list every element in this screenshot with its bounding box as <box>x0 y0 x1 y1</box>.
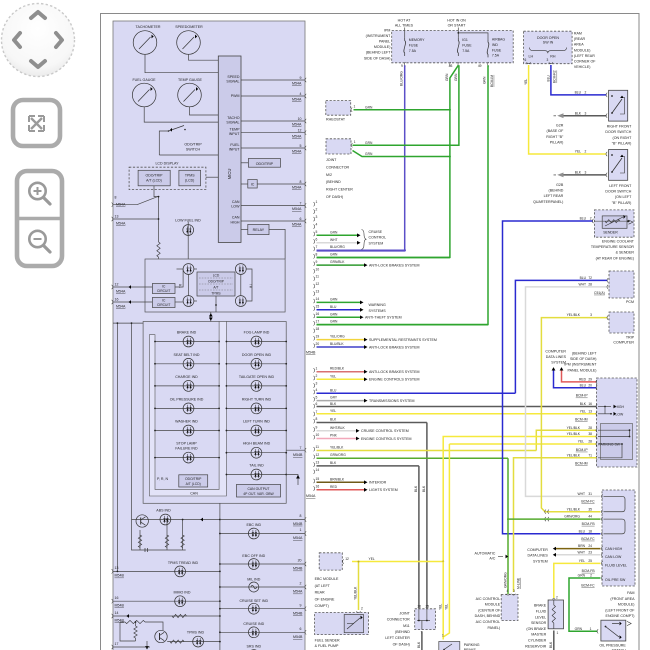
svg-text:38: 38 <box>588 432 592 436</box>
svg-text:BLK: BLK <box>414 485 418 492</box>
wire LCD display down to rail <box>154 190 159 197</box>
wire BLK right door switch to ground G2R <box>554 111 608 118</box>
FAM pin arcs <box>601 494 602 580</box>
wire ABS row to pin 8 M54B <box>220 514 306 526</box>
wire GRY pin5 M54A transmissions <box>317 400 365 402</box>
svg-text:SW IN: SW IN <box>543 41 554 45</box>
wire GRN pin8 M54B from IG1 <box>317 257 450 259</box>
TPMS IND <box>167 631 221 647</box>
svg-text:WHT: WHT <box>330 238 338 242</box>
ODO/TRIP switch <box>159 126 218 156</box>
svg-text:2: 2 <box>590 217 592 221</box>
svg-text:GRN: GRN <box>575 627 583 631</box>
svg-text:BRN/BLK: BRN/BLK <box>330 477 345 481</box>
svg-text:IMMO IND: IMMO IND <box>174 591 191 595</box>
svg-text:2: 2 <box>590 574 592 578</box>
svg-text:TPMS TREAD IND: TPMS TREAD IND <box>168 561 199 565</box>
svg-text:ODO/TRIP: ODO/TRIP <box>184 143 202 147</box>
svg-text:M/2: M/2 <box>326 173 332 177</box>
svg-text:STOP LAMP: STOP LAMP <box>176 442 197 446</box>
svg-text:CONTROL: CONTROL <box>369 236 387 240</box>
svg-text:SENDER: SENDER <box>603 231 618 235</box>
svg-text:BRAKE IND: BRAKE IND <box>177 331 197 335</box>
svg-text:IND: IND <box>492 43 499 47</box>
wire RED/BLK pin1 M54A anti-lock <box>317 371 365 373</box>
svg-text:SRS IND: SRS IND <box>247 645 262 649</box>
svg-text:18: 18 <box>588 529 592 533</box>
svg-text:25: 25 <box>588 559 592 563</box>
ENGINE COOLANT TEMPERATURE SENSOR & SENDER <box>591 210 635 260</box>
svg-text:CAN OUTPUT: CAN OUTPUT <box>247 487 269 491</box>
svg-text:YEL/BLK: YEL/BLK <box>567 313 581 317</box>
svg-text:FAM: FAM <box>627 591 634 595</box>
svg-text:PARKING: PARKING <box>464 643 480 647</box>
svg-text:8: 8 <box>316 417 318 421</box>
svg-text:BRAKE: BRAKE <box>534 604 547 608</box>
gauge fuel <box>132 78 156 107</box>
svg-text:BLU: BLU <box>580 217 587 221</box>
svg-text:TPMS IND: TPMS IND <box>187 631 205 635</box>
svg-text:LEVEL: LEVEL <box>535 615 546 619</box>
wire GRN joint connector B <box>353 151 451 158</box>
svg-text:RED: RED <box>579 378 587 382</box>
svg-text:M54A: M54A <box>293 536 303 540</box>
svg-text:15: 15 <box>316 305 320 309</box>
svg-text:ODO/TRIP: ODO/TRIP <box>256 162 274 166</box>
svg-text:23: 23 <box>588 550 592 554</box>
svg-text:CAN LOW: CAN LOW <box>605 555 622 559</box>
svg-text:3: 3 <box>584 111 586 115</box>
wire YEL RAM LH to left front door switch <box>524 65 607 156</box>
wire GRN pin16 M54B anti-theft <box>317 316 361 318</box>
instrument cluster panel <box>113 21 305 650</box>
svg-text:4: 4 <box>300 92 302 96</box>
svg-text:LEFT CENTER: LEFT CENTER <box>385 636 410 640</box>
svg-text:4: 4 <box>507 589 509 593</box>
wire BRN FAM 24 CAN HIGH <box>553 544 623 551</box>
svg-text:RIGHT FRONT: RIGHT FRONT <box>607 125 632 129</box>
center rail <box>219 503 221 650</box>
svg-text:PANEL: PANEL <box>379 40 391 44</box>
wire BLU/ORG memory fuse to pin 7 <box>317 65 405 251</box>
svg-text:12: 12 <box>115 283 119 287</box>
left rail B <box>131 323 133 519</box>
wire GRN airbag fuse to pin 17 <box>317 65 494 324</box>
svg-text:FAILURE IND: FAILURE IND <box>175 447 198 451</box>
indicator RIGHT TURN IND <box>226 397 288 413</box>
left stub pin 17 M54B <box>112 642 150 649</box>
svg-text:INTERIOR: INTERIOR <box>369 481 387 485</box>
svg-text:(BEHIND: (BEHIND <box>395 630 410 634</box>
svg-text:1: 1 <box>442 634 444 638</box>
svg-text:GRN: GRN <box>330 253 338 257</box>
svg-text:M54B: M54B <box>293 522 303 526</box>
svg-text:MICU: MICU <box>227 169 232 180</box>
indicator OIL PRESSURE IND <box>154 397 220 413</box>
IPM parking switch block <box>598 424 633 460</box>
svg-text:QUARTERPANEL): QUARTERPANEL) <box>533 200 563 204</box>
svg-text:BLU: BLU <box>546 74 550 81</box>
svg-text:2: 2 <box>584 150 586 154</box>
IPM fuse box <box>364 28 513 63</box>
svg-text:INPUT: INPUT <box>229 147 241 151</box>
svg-text:M54A: M54A <box>292 123 302 127</box>
svg-text:4: 4 <box>316 223 318 227</box>
wire GRN pin14 M54B warning <box>317 301 361 303</box>
svg-text:TAIL IND: TAIL IND <box>249 464 264 468</box>
svg-text:14: 14 <box>316 297 320 301</box>
svg-text:2: 2 <box>316 374 318 378</box>
svg-text:DOOR SWITCH: DOOR SWITCH <box>605 190 631 194</box>
RELAY box <box>241 224 285 259</box>
svg-text:YEL: YEL <box>445 604 449 610</box>
svg-text:LOW: LOW <box>231 205 240 209</box>
svg-text:BLK: BLK <box>417 641 421 648</box>
indicator BRAKE IND <box>154 331 220 347</box>
gauge speedometer <box>175 25 203 54</box>
svg-text:GRN: GRN <box>482 76 486 84</box>
svg-text:TAILGATE OPEN IND: TAILGATE OPEN IND <box>239 375 275 379</box>
svg-text:YEL/BLK: YEL/BLK <box>330 446 344 450</box>
wire fuel gauge to MICU <box>144 107 218 122</box>
svg-text:HOT IN ON: HOT IN ON <box>447 19 466 23</box>
svg-text:GRN: GRN <box>445 73 449 81</box>
MICU SPEED SIGNAL output wire, pin 9 <box>226 75 306 86</box>
svg-text:M54A: M54A <box>116 304 126 308</box>
svg-text:BLK: BLK <box>580 402 587 406</box>
svg-text:IPM (INSTRUMENT: IPM (INSTRUMENT <box>564 363 597 367</box>
svg-text:20: 20 <box>588 383 592 387</box>
wire GRN/ORG to FAM 44 and AC module <box>503 458 600 594</box>
svg-text:GRY: GRY <box>330 396 338 400</box>
svg-text:SENSOR: SENSOR <box>531 621 547 625</box>
wire PNK pin10 M54A engine controls <box>317 438 357 440</box>
svg-text:DOOR OPEN: DOOR OPEN <box>537 36 559 40</box>
CRUISE IND <box>219 622 306 639</box>
svg-text:CRUISE: CRUISE <box>369 230 383 234</box>
svg-text:M54A: M54A <box>292 186 302 190</box>
wire BLU to IPM 20 <box>554 371 597 388</box>
svg-text:FUSE: FUSE <box>492 48 502 52</box>
svg-text:10: 10 <box>298 117 302 121</box>
svg-text:SYSTEMS: SYSTEMS <box>369 309 387 313</box>
svg-text:IPM: IPM <box>384 28 390 32</box>
svg-text:CIRCUIT: CIRCUIT <box>157 303 170 307</box>
svg-text:BLU: BLU <box>330 388 337 392</box>
svg-text:RESERVOIR: RESERVOIR <box>525 644 547 648</box>
svg-text:PANEL): PANEL) <box>487 626 500 630</box>
svg-text:20: 20 <box>298 559 302 563</box>
wire relay to indicator frame <box>269 229 285 259</box>
svg-text:OIL PRESSURE: OIL PRESSURE <box>599 643 626 647</box>
svg-text:WHT/BLK: WHT/BLK <box>330 426 345 430</box>
svg-text:MODULE): MODULE) <box>618 603 635 607</box>
wire YEL/ORG pin19 M54B supplemental restraints <box>317 339 365 341</box>
svg-text:GRN: GRN <box>578 574 586 578</box>
fullscreen button <box>13 100 60 146</box>
svg-text:YEL/BLK: YEL/BLK <box>567 507 581 511</box>
svg-text:FUSE: FUSE <box>462 44 472 48</box>
RAM module box <box>524 31 597 69</box>
svg-text:CRUISE SET IND: CRUISE SET IND <box>239 599 268 603</box>
svg-text:CONNECTOR: CONNECTOR <box>326 165 349 169</box>
svg-text:GRN: GRN <box>365 141 373 145</box>
svg-text:M54A: M54A <box>292 82 302 86</box>
svg-text:RIGHT "B": RIGHT "B" <box>546 135 564 139</box>
svg-text:BLK: BLK <box>549 641 553 648</box>
svg-text:ABS IND: ABS IND <box>156 508 171 512</box>
svg-text:12: 12 <box>316 282 320 286</box>
wires LED cluster <box>177 268 184 270</box>
svg-text:12: 12 <box>345 557 349 561</box>
svg-text:SEAT BELT IND: SEAT BELT IND <box>174 353 200 357</box>
CRUISE SET IND <box>219 599 306 616</box>
svg-text:13: 13 <box>316 461 320 465</box>
svg-text:A/C CONTROL: A/C CONTROL <box>476 597 501 601</box>
svg-text:HIGH: HIGH <box>616 405 625 409</box>
svg-text:(LCD): (LCD) <box>185 179 194 183</box>
svg-text:(BEHIND LEFT: (BEHIND LEFT <box>572 352 597 356</box>
svg-text:BCM-FC: BCM-FC <box>581 499 595 503</box>
svg-text:20: 20 <box>316 342 320 346</box>
svg-text:TR: TR <box>179 283 183 288</box>
indicator FOG LAMP IND <box>226 331 288 347</box>
svg-text:BLU: BLU <box>575 91 582 95</box>
indicator TAILGATE OPEN IND <box>226 375 288 391</box>
svg-text:AUTOMATIC: AUTOMATIC <box>475 552 496 556</box>
svg-text:M54A: M54A <box>293 590 303 594</box>
svg-text:GRN: GRN <box>454 73 458 81</box>
MIL IND <box>219 578 306 594</box>
svg-text:ALL TIMES: ALL TIMES <box>395 23 414 27</box>
svg-text:M54B: M54B <box>293 453 303 457</box>
svg-text:P, R, N: P, R, N <box>157 477 169 481</box>
indicator grid frame <box>143 322 286 504</box>
svg-text:A/T: A/T <box>213 286 218 290</box>
svg-text:YEL: YEL <box>330 409 336 413</box>
left rail A <box>116 323 118 571</box>
AC CONTROL MODULE box <box>475 577 521 630</box>
svg-text:14: 14 <box>316 468 320 472</box>
svg-text:3: 3 <box>316 215 318 219</box>
svg-text:GRN: GRN <box>330 297 338 301</box>
wire BLU pin4 to PCM 72 <box>515 276 608 393</box>
svg-text:YEL: YEL <box>524 79 528 85</box>
svg-text:3: 3 <box>513 589 515 593</box>
indicator DOOR OPEN IND <box>226 353 288 369</box>
svg-text:LEFT REAR: LEFT REAR <box>544 194 564 198</box>
ABS IND <box>132 508 221 527</box>
svg-text:PANEL MODULE): PANEL MODULE) <box>568 368 597 372</box>
wire BRN/BLK pin15 M54A interior lights <box>317 481 365 483</box>
MICU block U1 <box>218 56 241 242</box>
wire RED pin16 M54A interior lights <box>317 489 365 491</box>
svg-text:13: 13 <box>316 290 320 294</box>
svg-text:17: 17 <box>115 642 119 646</box>
svg-text:2: 2 <box>316 208 318 212</box>
SRS IND <box>220 645 262 650</box>
svg-text:YEL/ORG: YEL/ORG <box>330 335 345 339</box>
svg-text:SWITCH: SWITCH <box>186 148 201 152</box>
svg-text:25: 25 <box>426 604 430 608</box>
FUEL SENDER box <box>315 613 369 648</box>
svg-text:BCM-FC: BCM-FC <box>581 584 595 588</box>
svg-text:REAR: REAR <box>315 591 325 595</box>
svg-text:16: 16 <box>588 402 592 406</box>
RHEOSTAT box <box>326 101 356 122</box>
computer data lines lower <box>527 548 548 564</box>
svg-text:8: 8 <box>300 514 302 518</box>
svg-text:C51(A): C51(A) <box>594 291 605 295</box>
IC box <box>241 180 306 190</box>
svg-text:COMPUTER: COMPUTER <box>613 341 634 345</box>
svg-text:A/C CONTROL: A/C CONTROL <box>476 620 501 624</box>
svg-text:17: 17 <box>316 319 320 323</box>
svg-text:7.5A: 7.5A <box>492 54 500 58</box>
svg-text:A/T (LCD): A/T (LCD) <box>186 482 201 486</box>
svg-text:BLU/BLK: BLU/BLK <box>330 342 344 346</box>
bus bar J-shape <box>149 322 226 497</box>
gauge temp <box>178 78 203 107</box>
svg-text:TRIP: TRIP <box>626 336 635 340</box>
label HOT IN ON OR START <box>447 19 466 28</box>
svg-text:11: 11 <box>316 445 320 449</box>
wire GRN/ORG pin12 M54A to FAM and AC <box>317 457 509 459</box>
wire GRN pin17 M54B from airbag fuse <box>317 324 489 326</box>
svg-text:CYLINDER: CYLINDER <box>528 639 547 643</box>
svg-text:GRN/ORG: GRN/ORG <box>330 453 346 457</box>
resistor R1 <box>157 242 160 257</box>
svg-text:MIL IND: MIL IND <box>247 578 260 582</box>
svg-text:MODULE): MODULE) <box>574 48 591 52</box>
svg-text:2: 2 <box>361 607 363 611</box>
wire hot to IG1 and airbag fuse <box>457 28 488 40</box>
svg-text:G2B: G2B <box>556 183 564 187</box>
svg-text:IC: IC <box>251 183 255 187</box>
svg-text:& SENDER: & SENDER <box>616 251 635 255</box>
MICU CAN HIGH wire pin 6 <box>231 216 307 227</box>
indicator HIGH BEAM IND <box>226 442 288 458</box>
svg-text:OIL PRESSURE IND: OIL PRESSURE IND <box>170 397 204 401</box>
svg-text:YEL: YEL <box>580 409 586 413</box>
svg-text:BCM-FC: BCM-FC <box>581 537 595 541</box>
wire BLU pin4 M54A to PCM <box>317 392 516 394</box>
wire BLK M11 to ground <box>417 631 422 650</box>
IPM BLK 16 row <box>580 402 625 409</box>
wire WHT pin6 M54B to cruise control <box>317 242 358 244</box>
svg-text:BCM-IP: BCM-IP <box>576 394 589 398</box>
svg-text:M54A: M54A <box>292 223 302 227</box>
svg-text:1: 1 <box>316 366 318 370</box>
svg-text:71: 71 <box>588 453 592 457</box>
svg-text:ANTI-LOCK BRAKES SYSTEM: ANTI-LOCK BRAKES SYSTEM <box>369 345 420 349</box>
PRN LCD box <box>157 475 208 487</box>
svg-text:CRUISE IND: CRUISE IND <box>243 622 264 626</box>
svg-text:CAN: CAN <box>232 200 240 204</box>
svg-text:COMPUTER: COMPUTER <box>527 548 548 552</box>
svg-text:TEMP GAUGE: TEMP GAUGE <box>178 78 202 82</box>
svg-text:BLK: BLK <box>575 111 582 115</box>
wire BLU sender to FAM 18 <box>503 217 601 534</box>
svg-text:16: 16 <box>316 312 320 316</box>
svg-text:6: 6 <box>300 627 302 631</box>
svg-text:SIGNAL: SIGNAL <box>226 79 239 83</box>
wire YEL EBC module to parking brake rail <box>352 557 443 561</box>
svg-text:11: 11 <box>316 275 320 279</box>
svg-text:VEHICLE): VEHICLE) <box>574 65 591 69</box>
svg-text:FUEL GAUGE: FUEL GAUGE <box>132 78 156 82</box>
svg-text:MEMORY: MEMORY <box>409 38 425 42</box>
svg-text:JOINT: JOINT <box>399 611 410 615</box>
svg-text:FLUID: FLUID <box>536 610 547 614</box>
svg-text:AIRBAG: AIRBAG <box>492 38 506 42</box>
svg-text:PILLAR): PILLAR) <box>550 140 564 144</box>
wire GRN IG1 to rheostat and pin 8 <box>317 65 459 257</box>
svg-text:BLU: BLU <box>579 529 586 533</box>
svg-text:13: 13 <box>115 566 119 570</box>
svg-text:M54A: M54A <box>292 98 302 102</box>
LEFT FRONT DOOR SWITCH <box>605 150 632 205</box>
CAN OUTPUT box <box>237 484 281 497</box>
svg-text:SYSTEM: SYSTEM <box>369 241 384 245</box>
svg-text:14: 14 <box>115 611 119 615</box>
FAM internal loop 2 <box>604 519 626 534</box>
svg-text:LCD DISPLAY: LCD DISPLAY <box>155 162 179 166</box>
svg-text:RIGHT CENTER: RIGHT CENTER <box>326 188 353 192</box>
fuse box bottom pins <box>401 62 489 68</box>
wire GRN IG1 second pin joint connector <box>353 65 459 145</box>
ODO/TRIP box <box>241 159 281 168</box>
node rail to LED cluster <box>158 197 160 242</box>
svg-text:SPEED: SPEED <box>227 75 240 79</box>
svg-text:BLK: BLK <box>330 461 337 465</box>
svg-text:3: 3 <box>590 313 592 317</box>
svg-text:ODO/TRIP: ODO/TRIP <box>208 280 225 284</box>
wire BLU pin15 M54B warning <box>317 309 361 311</box>
svg-text:YEL/BLK: YEL/BLK <box>567 426 581 430</box>
svg-text:2: 2 <box>556 596 558 600</box>
gauge tachometer <box>133 25 161 54</box>
IMMO IND <box>112 591 221 608</box>
svg-text:"B" PILLAR): "B" PILLAR) <box>612 141 632 145</box>
svg-text:M54A: M54A <box>306 494 316 498</box>
svg-text:EBC MODULE: EBC MODULE <box>315 577 339 581</box>
left stub pin 8 M54A <box>112 196 159 207</box>
svg-text:(INSTRUMENT: (INSTRUMENT <box>366 34 392 38</box>
svg-text:BCM-IP: BCM-IP <box>576 448 589 452</box>
svg-text:MODULE: MODULE <box>485 603 501 607</box>
svg-text:TEMPERATURE SENSOR: TEMPERATURE SENSOR <box>591 245 634 249</box>
svg-text:TRANSMISSIONS SYSTEM: TRANSMISSIONS SYSTEM <box>369 399 415 403</box>
OIL PRESSURE SWITCH box <box>599 620 631 650</box>
svg-text:5: 5 <box>316 230 318 234</box>
IC CIRCUIT box 2 <box>152 298 175 308</box>
wire GRN rheostat <box>354 105 451 110</box>
svg-text:IG1: IG1 <box>462 38 468 42</box>
LED D1 <box>183 264 194 275</box>
fuse IG1 FUSE 7.5A <box>457 38 472 56</box>
svg-text:M54A: M54A <box>116 202 126 206</box>
svg-text:YEL: YEL <box>575 150 581 154</box>
svg-text:M54B: M54B <box>306 351 316 355</box>
computer data lines upper <box>545 349 566 370</box>
svg-text:1: 1 <box>354 140 356 144</box>
svg-text:CAN: CAN <box>232 216 240 220</box>
svg-text:44: 44 <box>588 515 592 519</box>
svg-text:EBC OFF IND: EBC OFF IND <box>242 554 265 558</box>
indicator SEAT BELT IND <box>154 353 220 369</box>
svg-text:MASTER: MASTER <box>531 633 546 637</box>
